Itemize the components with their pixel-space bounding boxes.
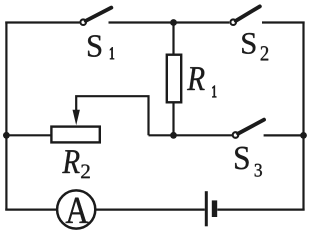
ammeter A	[57, 190, 95, 228]
wire S3 to right node	[264, 134, 305, 136]
switch S2 blade	[236, 6, 260, 20]
node bottom of R1	[170, 132, 177, 139]
wire right vertical	[302, 22, 304, 211]
wire top middle segment	[109, 21, 230, 23]
wire middle left segment	[5, 134, 52, 136]
rheostat R2 label	[62, 150, 79, 173]
resistor R1 label	[187, 67, 205, 90]
rheostat R2 wiper arrowhead	[73, 110, 80, 125]
switch S3 blade	[238, 120, 264, 134]
switch S1 pivot	[80, 19, 86, 25]
switch S1 blade	[86, 8, 112, 21]
wire rheostat wiper path	[76, 96, 148, 135]
wire bottom left segment	[5, 209, 57, 211]
switch S1 label	[88, 35, 101, 57]
battery short plate	[212, 200, 217, 217]
switch S3 pivot	[233, 132, 239, 138]
rheostat R2 body	[51, 127, 99, 143]
wire bottom middle segment	[96, 209, 205, 211]
wire top left segment	[5, 21, 79, 23]
node right middle	[300, 132, 307, 139]
wire R1 top lead	[172, 23, 174, 55]
switch S2 label	[242, 33, 255, 54]
wire middle right segment	[149, 134, 233, 136]
wire R1 bottom lead	[172, 102, 174, 135]
battery long plate	[205, 191, 208, 226]
node left middle	[3, 132, 10, 139]
wire top right segment	[262, 21, 305, 23]
resistor R1	[167, 55, 181, 103]
node top of R1	[170, 19, 177, 26]
wire left vertical	[5, 22, 7, 211]
switch S3 label	[235, 147, 248, 170]
wire bottom right segment	[217, 209, 304, 211]
switch S2 pivot	[230, 19, 236, 25]
